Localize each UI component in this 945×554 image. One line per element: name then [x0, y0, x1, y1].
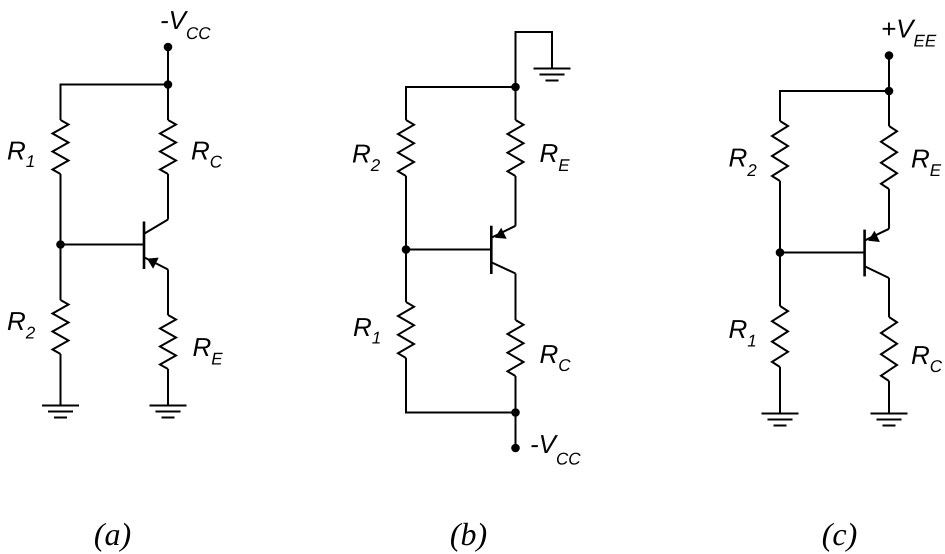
wire R2 to base node (b): [405, 176, 407, 250]
svg-text:RE: RE: [911, 144, 942, 181]
transistor Q3 emitter lead (c): [865, 229, 889, 241]
svg-text:RE: RE: [193, 332, 224, 369]
svg-text:(a): (a): [94, 516, 131, 552]
wire RC to collector (a): [167, 174, 169, 220]
ground top (b): [534, 69, 571, 81]
wire top rail (c): [780, 90, 889, 92]
resistor R2 (a): [53, 300, 69, 354]
wire RE to emitter (c): [888, 189, 890, 229]
wire R2 to ground (a): [60, 354, 62, 406]
supply terminal dot -VCC (b): [511, 444, 520, 453]
svg-text:RE: RE: [540, 138, 571, 175]
node bottom-rail junction (b): [511, 408, 520, 417]
ground right (a): [150, 406, 187, 418]
transistor Q2 base bar (b): [490, 226, 493, 274]
wire node to R1 (c): [779, 253, 781, 307]
transistor Q1 base bar (a): [143, 222, 146, 270]
svg-text:R1: R1: [729, 314, 757, 351]
svg-text:(b): (b): [450, 516, 487, 552]
supply terminal dot -VCC (a): [164, 43, 173, 52]
transistor Q1 collector lead (a): [145, 220, 169, 234]
wire node to R1 (b): [405, 250, 407, 303]
ground left (a): [42, 406, 79, 418]
wire base (b): [406, 249, 491, 251]
transistor Q2 emitter arrow (b): [495, 228, 507, 239]
resistor RE (a): [160, 315, 176, 369]
svg-text:-VCC: -VCC: [530, 429, 581, 469]
resistor RE (c): [881, 126, 897, 189]
transistor Q3 collector lead (c): [865, 267, 889, 279]
resistor RC (a): [160, 120, 176, 174]
svg-text:-VCC: -VCC: [160, 5, 211, 43]
node top-rail junction (a): [164, 80, 173, 89]
svg-text:(c): (c): [822, 516, 858, 552]
svg-text:RC: RC: [540, 339, 572, 375]
wire R2 to base node (c): [779, 181, 781, 253]
wire R1 to ground (c): [779, 367, 781, 414]
resistor R1 (b): [398, 302, 414, 358]
wire node to R2 (a): [60, 245, 62, 301]
svg-text:R2: R2: [7, 306, 36, 343]
wire top node to RE (b): [515, 87, 517, 120]
supply terminal dot +VEE (c): [885, 51, 894, 60]
wire top rail to R2 (c): [779, 90, 781, 121]
transistor Q1 emitter arrow (a): [147, 258, 159, 269]
wire RC to ground (c): [888, 381, 890, 414]
resistor R2 (c): [772, 121, 788, 181]
resistor R1 (a): [53, 120, 69, 174]
resistor R2 (b): [398, 120, 414, 176]
transistor Q2 emitter lead (b): [492, 226, 516, 238]
svg-text:R2: R2: [729, 143, 758, 181]
node base junction (c): [776, 248, 785, 257]
wire R1 to base node (a): [60, 174, 62, 245]
svg-text:RC: RC: [911, 340, 943, 376]
wire collector to RC (c): [888, 278, 890, 317]
node top-rail junction (c): [885, 87, 894, 96]
wire supply to top rail (c): [888, 56, 890, 92]
svg-text:RC: RC: [191, 136, 223, 172]
resistor R1 (c): [772, 306, 788, 367]
node base junction (a): [56, 240, 65, 249]
wire base (a): [61, 244, 145, 246]
ground right (c): [871, 414, 908, 426]
transistor Q2 collector lead (b): [492, 263, 516, 274]
wire R1 to bottom rail (b): [405, 358, 407, 414]
node top-rail junction (b): [511, 83, 520, 92]
wire top rail (b): [406, 86, 516, 88]
node base junction (b): [402, 245, 411, 254]
svg-text:R1: R1: [7, 135, 35, 171]
transistor Q3 base bar (c): [863, 230, 866, 277]
wire top rail to RC (a): [167, 85, 169, 121]
transistor Q1 emitter lead (a): [145, 258, 169, 270]
wire RC to bottom rail (b): [515, 376, 517, 413]
resistor RC (c): [881, 317, 897, 381]
svg-text:R2: R2: [352, 139, 381, 176]
wire node up to ground stub (b): [516, 32, 553, 87]
wire RE to ground (a): [167, 369, 169, 406]
wire top rail to R1 (a): [60, 84, 62, 121]
wire emitter to RE (a): [167, 270, 169, 316]
ground left (c): [762, 414, 799, 426]
svg-text:R1: R1: [353, 312, 381, 348]
wire base (c): [780, 252, 865, 254]
wire top rail (a): [61, 84, 169, 86]
wire top rail to R2 (b): [405, 86, 407, 120]
svg-text:+VEE: +VEE: [881, 14, 937, 51]
resistor RC (b): [508, 320, 524, 376]
wire bottom node to supply (b): [515, 413, 517, 449]
transistor Q3 emitter arrow (c): [868, 231, 880, 242]
resistor RE (b): [508, 120, 524, 176]
wire collector to RC (b): [515, 274, 517, 321]
wire top node to RE (c): [888, 91, 890, 126]
wire bottom rail (b): [406, 412, 516, 414]
wire supply to top rail (a): [167, 47, 169, 85]
wire RE to emitter (b): [515, 176, 517, 226]
